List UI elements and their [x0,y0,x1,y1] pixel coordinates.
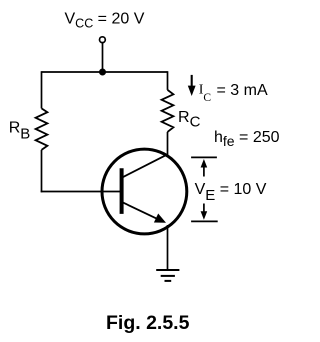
dimension VE [191,157,218,221]
emitter line with arrow [123,202,161,220]
wire top rail [42,71,168,73]
ground [156,270,179,281]
transistor Q1 [102,149,187,234]
resistor RB [36,108,48,149]
wire RB top lead [41,71,43,108]
wire RC top lead [167,71,169,90]
junction node [99,69,106,76]
svg-text:Fig. 2.5.5: Fig. 2.5.5 [106,312,190,334]
transistor body circle [102,149,187,234]
wire RC bottom to collector [167,132,169,157]
wire VCC terminal to junction [102,43,104,72]
terminal VCC [100,37,106,43]
base bar [120,168,124,214]
current arrow IC [188,75,196,96]
resistor RC [162,90,174,132]
wire emitter to ground [167,225,169,270]
wire RB bottom to base node [41,150,43,192]
wire base [41,191,122,193]
collector line [123,154,168,177]
